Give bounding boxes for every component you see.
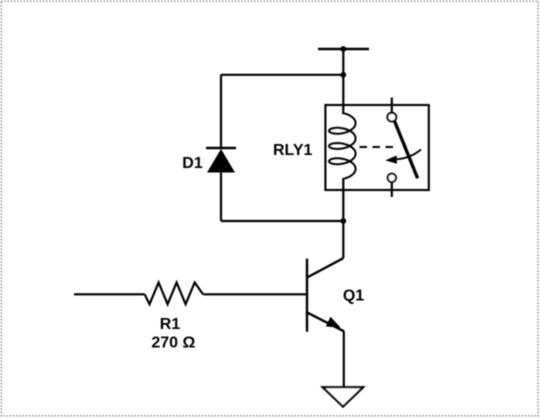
relay coil [329, 113, 356, 179]
node (supply junction) [340, 46, 346, 52]
wire (supply to relay coil) [342, 49, 344, 114]
svg-text:270 Ω: 270 Ω [151, 335, 195, 352]
relay contact pin (top stub) [391, 98, 393, 113]
svg-text:Q1: Q1 [343, 288, 364, 305]
wire (diode cathode lead) [220, 75, 222, 148]
relay contact terminal (bottom circle) [388, 174, 396, 182]
resistor R1 [145, 283, 203, 305]
ground [323, 387, 364, 406]
relay RLY1 box [325, 105, 428, 190]
wire (base lead right) [203, 293, 307, 295]
relay actuation dashed link [360, 146, 395, 148]
wire (coil to collector junction) [342, 179, 344, 221]
relay contact terminal (top circle) [387, 113, 396, 122]
wire (base lead left) [74, 293, 145, 295]
diode D1 [206, 148, 236, 173]
wire (bottom of diode branch) [221, 220, 343, 222]
svg-text:R1: R1 [160, 316, 181, 333]
wire (emitter lead) [343, 331, 345, 387]
relay switch arm [394, 121, 417, 178]
node (diode top junction) [340, 72, 346, 78]
wire (V+ supply rail) [318, 48, 369, 50]
svg-text:D1: D1 [182, 155, 203, 172]
node (collector junction) [340, 218, 346, 224]
svg-text:RLY1: RLY1 [273, 142, 313, 159]
relay contact pin (bottom stub) [391, 182, 393, 197]
transistor Q1 [307, 258, 344, 332]
wire (top of diode branch) [221, 74, 343, 76]
wire (diode anode lead) [220, 172, 222, 221]
relay motion arrow [385, 150, 421, 164]
wire (collector lead) [342, 221, 344, 258]
